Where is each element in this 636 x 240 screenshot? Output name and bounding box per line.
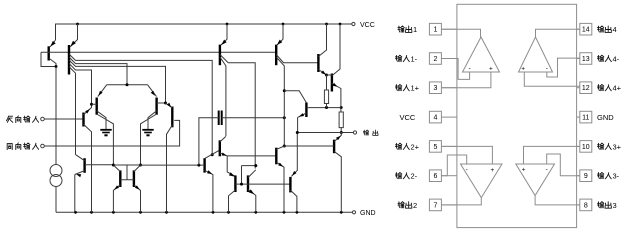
VCC terminal bbox=[352, 22, 375, 29]
wire pin5 to U2 non-inverting bbox=[441, 146, 492, 164]
wire: QB collector f5 to Q7 bbox=[69, 67, 76, 155]
transistor Q2 non-inverting input PNP bbox=[166, 103, 173, 213]
resistor R2 bbox=[339, 112, 343, 134]
wire: inverting input to Q1 base bbox=[44, 118, 83, 120]
svg-text:-: - bbox=[469, 65, 471, 72]
op-amp U4 top right bbox=[519, 37, 553, 73]
pin 10 bbox=[577, 141, 592, 153]
VCC rail bbox=[55, 23, 352, 26]
pin 12 bbox=[577, 82, 592, 94]
pin 13 bbox=[577, 53, 592, 65]
pin 6 bbox=[429, 170, 457, 182]
svg-text:+: + bbox=[522, 167, 526, 174]
op-amp U3 bottom right bbox=[516, 164, 555, 196]
svg-text:5: 5 bbox=[433, 144, 437, 151]
transistor Q14 phase splitter NPN bbox=[276, 146, 284, 212]
svg-text:9: 9 bbox=[584, 173, 588, 180]
label pin3 in1+ bbox=[395, 84, 419, 93]
svg-text:1+: 1+ bbox=[411, 84, 420, 93]
svg-text:4: 4 bbox=[613, 25, 617, 34]
transistor QA bias mirror reference PNP bbox=[49, 24, 56, 67]
pin 5 bbox=[429, 141, 457, 153]
svg-text:+: + bbox=[489, 66, 493, 73]
transistor Q11 VAS follower NPN bbox=[220, 136, 276, 176]
GND terminal bbox=[352, 210, 375, 217]
svg-text:-: - bbox=[546, 166, 548, 173]
label pin10 in3+ bbox=[597, 142, 621, 151]
output line bbox=[296, 131, 353, 134]
op-amp U2 bottom left bbox=[461, 164, 503, 198]
wire: QB collector f1 to Q10 collector bbox=[69, 54, 214, 156]
label pin2 in1- bbox=[395, 55, 417, 64]
transistor Q15 sink driver PNP bbox=[290, 133, 297, 213]
label pin6 in2- bbox=[395, 172, 417, 181]
label pin1 out1 bbox=[398, 25, 417, 34]
transistor Q7 follower bbox=[75, 155, 114, 213]
svg-text:-: - bbox=[546, 65, 548, 72]
transistor Q10 second stage NPN bbox=[141, 150, 220, 212]
capacitor Cc bbox=[199, 111, 286, 166]
svg-text:11: 11 bbox=[582, 115, 589, 122]
svg-text:10: 10 bbox=[582, 144, 590, 151]
svg-text:+: + bbox=[521, 66, 525, 73]
pin 3 bbox=[429, 82, 457, 94]
transistor Q18 VCC NPN lower bbox=[327, 24, 341, 112]
transistor Q12 sink mirror left bbox=[229, 172, 236, 212]
svg-text:2: 2 bbox=[433, 56, 437, 63]
label pin14 out4 bbox=[597, 25, 616, 34]
pin 2 bbox=[429, 53, 457, 65]
svg-text:3+: 3+ bbox=[613, 142, 622, 151]
transistor Q8 mirror left NPN bbox=[112, 164, 120, 213]
svg-text:1-: 1- bbox=[411, 55, 418, 64]
transistor Q1 inverting input PNP bbox=[84, 103, 94, 213]
wire pin9 to U3 inverting bbox=[547, 154, 580, 176]
transistor QC bias source PNP mid bbox=[220, 24, 255, 169]
transistor Q13 sink mirror right bbox=[248, 170, 256, 213]
label pin13 in4- bbox=[597, 55, 619, 64]
wire: QA base-collector tie bbox=[41, 52, 58, 68]
GND rail bbox=[56, 211, 352, 214]
resistor R1 bbox=[324, 75, 328, 108]
label pin8 out3 bbox=[597, 201, 616, 210]
IC body bbox=[457, 4, 577, 227]
wire pin1 to U1 output bbox=[441, 29, 480, 37]
wire: mirror base tie and riser bbox=[120, 165, 134, 180]
wire: QB collector f3 to diff tail bbox=[69, 57, 127, 85]
label pin7 out2 bbox=[398, 201, 417, 210]
wire: non-inverting input to Q2 base bbox=[44, 120, 179, 146]
svg-text:+: + bbox=[491, 167, 495, 174]
wire pin12 to U4 non-inverting bbox=[524, 72, 580, 86]
pin 9 bbox=[577, 170, 592, 182]
wire: common bias base line bbox=[41, 51, 276, 53]
diff tail node bbox=[107, 83, 148, 86]
svg-text:2-: 2- bbox=[411, 172, 418, 181]
wire pin8 to U3 output bbox=[535, 196, 580, 205]
pin 11 bbox=[577, 111, 592, 123]
svg-text:VCC: VCC bbox=[360, 22, 375, 29]
ground symbol at Q3 collector bbox=[100, 130, 111, 136]
pin 7 bbox=[429, 199, 457, 211]
svg-text:4+: 4+ bbox=[613, 84, 622, 93]
wire: sink mirror base tie to Q15 base bbox=[235, 164, 290, 186]
op-amp U1 top left bbox=[463, 37, 500, 73]
svg-text:6: 6 bbox=[433, 173, 437, 180]
svg-text:1: 1 bbox=[433, 27, 437, 34]
non-inverting input terminal bbox=[7, 143, 44, 150]
svg-text:1: 1 bbox=[413, 25, 417, 34]
svg-text:8: 8 bbox=[584, 202, 588, 209]
transistor QD bias source PNP right bbox=[276, 24, 318, 148]
current source bias bbox=[50, 67, 62, 213]
label pin5 in2+ bbox=[395, 142, 419, 151]
transistor Q16 output PNP bbox=[284, 91, 342, 133]
wire pin13 to U4 inverting bbox=[547, 58, 580, 77]
svg-text:GND: GND bbox=[360, 210, 376, 217]
label pin9 in3- bbox=[597, 172, 619, 181]
svg-text:-: - bbox=[466, 167, 468, 174]
svg-text:3: 3 bbox=[433, 85, 437, 92]
output terminal bbox=[353, 130, 378, 135]
pin 8 bbox=[577, 199, 592, 211]
svg-text:7: 7 bbox=[433, 202, 437, 209]
ground symbol at Q4 collector bbox=[142, 130, 153, 136]
transistor Q19 output pulldown NPN bbox=[284, 133, 341, 213]
wire pin14 to U4 output bbox=[536, 29, 580, 37]
transistor Q3 inner left PNP bbox=[92, 85, 114, 165]
wire pin2 to U1 inverting bbox=[441, 59, 469, 80]
transistor Q17 VCC NPN upper bbox=[318, 24, 328, 77]
wire pin3 to U1 non-inverting bbox=[441, 72, 491, 88]
pin 4 bbox=[429, 111, 457, 123]
pin 1 bbox=[429, 23, 457, 35]
wire pin6 to U2 inverting bbox=[441, 155, 466, 176]
svg-text:GND: GND bbox=[597, 113, 614, 122]
pin 14 bbox=[577, 23, 592, 35]
svg-text:4: 4 bbox=[433, 115, 437, 122]
svg-text:2: 2 bbox=[413, 201, 417, 210]
svg-text:3-: 3- bbox=[613, 172, 620, 181]
svg-text:2+: 2+ bbox=[411, 142, 420, 151]
svg-text:13: 13 bbox=[582, 56, 590, 63]
svg-text:12: 12 bbox=[582, 85, 590, 92]
wire pin10 to U3 non-inverting bbox=[524, 146, 580, 164]
wire pin7 to U2 output bbox=[441, 198, 481, 205]
transistor Q9 mirror right NPN bbox=[134, 164, 142, 213]
svg-text:14: 14 bbox=[582, 27, 590, 34]
wire: mirror collector tie bbox=[113, 164, 140, 166]
svg-text:3: 3 bbox=[613, 201, 617, 210]
transistor Q4 inner right PNP bbox=[141, 85, 168, 165]
inverting input terminal bbox=[6, 116, 44, 123]
svg-text:VCC: VCC bbox=[400, 113, 416, 122]
svg-text:4-: 4- bbox=[613, 55, 620, 64]
wire: QB collector f4 to Q3 base node bbox=[69, 63, 92, 104]
wire: QB collector f2 to Q4 base bbox=[69, 60, 166, 103]
label pin12 in4+ bbox=[597, 84, 621, 93]
transistor QB multi-collector bias PNP bbox=[69, 24, 78, 75]
